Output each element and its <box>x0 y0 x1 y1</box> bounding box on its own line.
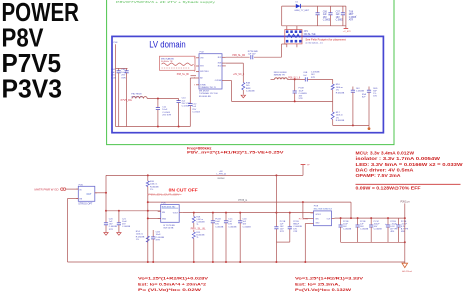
svg-text:X7R: X7R <box>109 229 114 231</box>
svg-text:1%: 1% <box>150 189 153 191</box>
svg-text:R.0603B: R.0603B <box>336 120 345 122</box>
wire U2 pin OVP down <box>222 80 232 82</box>
svg-text:P8V_EN_CUT_08V: P8V_EN_CUT_08V <box>148 194 180 197</box>
resistor R10 <box>147 175 149 181</box>
svg-text:OPAMP: 7.5V 2mA: OPAMP: 7.5V 2mA <box>356 173 401 178</box>
capacitor C32 <box>370 218 372 225</box>
wire mid rail <box>232 100 333 102</box>
op-amp U2 controller IC <box>199 54 222 89</box>
svg-text:LED: 3.3V 5mA = 0.0166W x2 =: LED: 3.3V 5mA = 0.0166W x2 = 0.033W <box>356 162 463 167</box>
svg-text:10uF: 10uF <box>162 109 168 111</box>
svg-text:8W8: 8W8 <box>246 88 251 90</box>
svg-text:1%: 1% <box>136 239 139 241</box>
svg-text:8: 8 <box>194 66 195 68</box>
capacitor C11 <box>157 99 159 108</box>
svg-text:16V: 16V <box>323 17 328 19</box>
blue LV domain box <box>112 36 383 132</box>
diode D1 <box>296 4 300 8</box>
svg-text:OD.SL.TLE: OD.SL.TLE <box>304 34 316 36</box>
wire P7V5 rail <box>147 98 178 100</box>
svg-text:+C_47V: +C_47V <box>343 31 352 33</box>
ground rail LV <box>116 126 191 128</box>
wire P3V3 down to ground <box>404 203 406 263</box>
wire U8 gnd <box>305 223 310 225</box>
svg-text:+8V: +8V <box>219 171 223 173</box>
svg-text:25V: 25V <box>111 75 115 77</box>
wire U6 en <box>148 217 161 219</box>
power flag +C_47V <box>345 26 347 29</box>
svg-text:B2DTV8.D: B2DTV8.D <box>200 71 209 73</box>
capacitor C23 <box>212 213 214 221</box>
svg-text:C.0603B: C.0603B <box>228 226 237 228</box>
power flag P8V <box>302 165 304 175</box>
svg-text:C1B: C1B <box>156 231 161 233</box>
svg-text:P8V_m=2*(1+R1/R2)*1.75-VE+0.25: P8V_m=2*(1+R1/R2)*1.75-VE+0.25V <box>187 151 285 155</box>
svg-text:X7R: X7R <box>311 77 316 79</box>
jumper JP1 footprint <box>286 26 288 30</box>
svg-text:25V: 25V <box>192 109 196 111</box>
capacitor C05 <box>126 68 128 70</box>
ground rail right <box>333 124 369 126</box>
svg-text:MHTR PWR W GD: MHTR PWR W GD <box>35 188 59 191</box>
svg-text:C.0603B: C.0603B <box>122 226 131 228</box>
svg-text:A TYPE: A TYPE <box>390 228 398 231</box>
capacitor CB (series) <box>250 55 252 59</box>
svg-text:GPIO1: GPIO1 <box>315 214 321 216</box>
svg-text:GND: GND <box>315 223 320 225</box>
wire cap lower rail <box>341 241 405 243</box>
svg-text:1uF: 1uF <box>336 14 341 16</box>
svg-text:8D.8000 8B: 8D.8000 8B <box>199 96 211 98</box>
svg-text:C.0603B: C.0603B <box>246 91 255 93</box>
svg-text:P=(VI-Vo)*Io= 0.132W: P=(VI-Vo)*Io= 0.132W <box>295 287 351 292</box>
svg-text:0N CUT OFF: 0N CUT OFF <box>169 187 198 192</box>
svg-text:0.09W = 0.128W@70% EFF: 0.09W = 0.128W@70% EFF <box>356 185 422 190</box>
svg-text:R.0603B: R.0603B <box>136 236 145 238</box>
capacitor C34 polarized <box>398 218 400 225</box>
capacitor C0C <box>352 87 354 91</box>
svg-text:10uF: 10uF <box>156 234 162 236</box>
svg-text:MKT: MKT <box>349 14 354 16</box>
capacitor C20 <box>105 222 107 224</box>
capacitor C26 <box>275 175 277 226</box>
capacitor C33 polarized <box>387 218 389 225</box>
svg-text:100k m: 100k m <box>136 234 143 236</box>
svg-text:C.0G: C.0G <box>111 77 116 79</box>
capacitor C07 <box>330 6 332 13</box>
svg-text:P08_SL_80: P08_SL_80 <box>177 74 190 76</box>
svg-text:FB2 HK08: FB2 HK08 <box>131 94 142 96</box>
svg-text:GND: GND <box>162 219 167 221</box>
capacitor C30 <box>340 218 342 225</box>
svg-text:T.8MBMV8, TM1, T8: T.8MBMV8, TM1, T8 <box>200 87 215 89</box>
svg-text:C.0G03: C.0G03 <box>192 112 200 114</box>
wire U5-U6 rail <box>106 210 161 212</box>
svg-text:MK3 KA8096: MK3 KA8096 <box>161 57 175 60</box>
svg-text:1uF: 1uF <box>323 14 328 16</box>
svg-text:C07: C07 <box>336 11 341 13</box>
wire input caps <box>116 67 128 69</box>
wire U5 out vertical <box>105 175 107 222</box>
svg-text:MCU: 3.3v 3.4mA 0.012W: MCU: 3.3v 3.4mA 0.012W <box>356 150 415 155</box>
ground <box>241 95 245 98</box>
svg-text:Est: Io= 0.5mA*4 + 20mA*2: Est: Io= 0.5mA*4 + 20mA*2 <box>138 281 207 286</box>
svg-text:DAC driver: 4V 0.5mA: DAC driver: 4V 0.5mA <box>356 168 414 173</box>
svg-text:OUT: OUT <box>87 194 92 196</box>
svg-text:16V: 16V <box>373 96 377 98</box>
svg-text:C.0603B: C.0603B <box>356 91 365 93</box>
node via <box>368 125 370 127</box>
svg-text:P3V3: P3V3 <box>2 76 63 104</box>
svg-text:1uF 10V: 1uF 10V <box>248 53 256 55</box>
svg-text:8: 8 <box>194 57 195 59</box>
wire U5 enable loop <box>68 198 79 200</box>
divider line <box>356 183 461 185</box>
svg-text:isolator : 3.3v 1.7mA 0.0054W: isolator : 3.3v 1.7mA 0.0054W <box>356 156 441 161</box>
svg-text:FB3 8 K0808: FB3 8 K0808 <box>274 72 288 74</box>
wire U6 to U8 rail P7V5 <box>182 212 313 214</box>
capacitor C0B (series) <box>304 77 306 81</box>
svg-text:100k m: 100k m <box>336 87 343 89</box>
svg-text:R.0603B: R.0603B <box>336 92 345 94</box>
svg-text:AG PGnd: AG PGnd <box>402 270 412 273</box>
svg-text:8: 8 <box>194 78 195 80</box>
svg-text:8: 8 <box>194 84 195 86</box>
resistor R18 divider top <box>193 213 195 217</box>
svg-text:L_P8V_A: L_P8V_A <box>217 173 227 176</box>
wire top feed drop <box>350 202 352 218</box>
wire port to U5 <box>66 188 78 190</box>
svg-text:10uF: 10uF <box>121 72 127 74</box>
svg-text:Est: Io= 25.3mA,: Est: Io= 25.3mA, <box>295 281 340 286</box>
wire bottom ground rail <box>68 261 405 263</box>
svg-text:8MK0M TR: 8MK0M TR <box>274 75 285 77</box>
svg-text:C.0805: C.0805 <box>323 20 331 22</box>
svg-text:C.0603B: C.0603B <box>156 237 165 239</box>
svg-text:P8V: P8V <box>2 24 44 52</box>
wire cap bracket <box>276 241 289 243</box>
capacitor C31 <box>357 218 359 225</box>
svg-text:POWER: POWER <box>2 0 80 27</box>
svg-text:1%: 1% <box>336 90 339 92</box>
svg-text:X7R: X7R <box>280 231 285 233</box>
wire U8 en vertical <box>302 202 304 218</box>
svg-text:A8: A8 <box>200 77 202 80</box>
wire P8V rail <box>106 174 303 176</box>
resistor R19 divider bottom <box>193 230 195 232</box>
svg-text:P7V5_RG: P7V5_RG <box>121 99 132 102</box>
svg-text:MIC 2TD8 SLTB2 KL8: MIC 2TD8 SLTB2 KL8 <box>314 208 333 210</box>
svg-text:100k m: 100k m <box>150 184 157 186</box>
svg-text:P8V/P7V5/P3V3 + 2F 2TV + flyba: P8V/P7V5/P3V3 + 2F 2TV + flyback supply <box>116 0 216 4</box>
svg-text:C.0603B: C.0603B <box>374 229 383 231</box>
svg-text:on the bottom - 1.5: on the bottom - 1.5 <box>305 42 323 45</box>
capacitor C06 <box>317 6 319 13</box>
capacitor C24 <box>225 213 227 221</box>
svg-text:VBRMK: VBRMK <box>217 178 225 180</box>
capacitor C27 <box>289 213 291 227</box>
resistor R1B <box>242 63 244 82</box>
svg-text:R1A: R1A <box>362 93 367 96</box>
capacitor C12 <box>190 77 196 79</box>
capacitor C22 <box>152 230 154 237</box>
svg-text:C.0G03: C.0G03 <box>162 112 170 114</box>
svg-text:X7R: X7R <box>293 231 298 233</box>
svg-text:See Felix Footprint for placem: See Felix Footprint for placement <box>305 38 346 42</box>
capacitor C0D <box>368 87 370 91</box>
svg-text:C0B: C0B <box>303 72 308 74</box>
svg-text:Vo=1.25*(1+R2/R1)=3.33V: Vo=1.25*(1+R2/R1)=3.33V <box>295 275 363 280</box>
svg-text:B T.DT8.8B: B T.DT8.8B <box>164 225 176 227</box>
svg-text:STROG OPT: STROG OPT <box>78 202 93 205</box>
wire U2 pin2 <box>226 62 244 64</box>
svg-text:TU8: TU8 <box>349 11 354 13</box>
svg-text:P3V3_m: P3V3_m <box>401 201 410 204</box>
svg-text:8 HMD: 8 HMD <box>200 84 206 86</box>
wire U5 out <box>95 192 106 194</box>
capacitor C08 <box>294 78 296 80</box>
svg-text:1uF: 1uF <box>111 72 115 74</box>
capacitor C0A <box>342 6 344 13</box>
svg-text:1%: 1% <box>336 117 339 119</box>
svg-text:GRM_TY_MKT: GRM_TY_MKT <box>294 10 310 12</box>
regulator U8 <box>314 211 332 226</box>
svg-text:25V X7R: 25V X7R <box>162 115 171 117</box>
svg-text:16V: 16V <box>336 17 341 19</box>
wire top loop <box>282 5 346 7</box>
svg-text:R1B: R1B <box>246 82 251 84</box>
svg-text:25V: 25V <box>121 75 125 77</box>
regulator U6 <box>161 205 180 223</box>
resistor R17 <box>332 101 334 112</box>
svg-text:TGTA 8AL 12V 100: TGTA 8AL 12V 100 <box>199 92 219 95</box>
svg-text:100k m: 100k m <box>336 115 343 117</box>
svg-text:C.0603B: C.0603B <box>243 226 252 228</box>
green schematic border <box>107 0 394 145</box>
capacitor C10 <box>178 99 180 101</box>
regulator U5 <box>78 186 95 201</box>
svg-text:VOUT: VOUT <box>173 212 179 214</box>
svg-text:LV domain: LV domain <box>149 39 186 49</box>
svg-text:P8V_SL_8L: P8V_SL_8L <box>191 227 207 230</box>
ground P3V3 <box>402 263 408 267</box>
wire P3V3 output rail <box>335 217 405 219</box>
svg-text:C06: C06 <box>323 11 328 13</box>
svg-text:X5R: X5R <box>121 77 126 79</box>
svg-text:C.0603B: C.0603B <box>215 226 224 228</box>
svg-text:8DT10 8B: 8DT10 8B <box>164 228 174 230</box>
capacitor C04 <box>118 68 120 70</box>
svg-text:R.0603B: R.0603B <box>150 186 159 188</box>
svg-text:8: 8 <box>194 71 195 73</box>
svg-text:X7R: X7R <box>156 240 161 242</box>
svg-text:X7R: X7R <box>299 98 304 100</box>
capacitor C25 <box>239 213 241 221</box>
svg-text:OVP&M: OVP&M <box>215 80 222 82</box>
resistor R16 <box>332 79 334 84</box>
svg-text:1uF: 1uF <box>192 106 196 108</box>
svg-text:ATR: ATR <box>349 19 354 22</box>
capacitor C21 <box>118 211 120 223</box>
svg-text:P7V5: P7V5 <box>2 50 62 78</box>
svg-text:P7V5_m: P7V5_m <box>238 200 247 202</box>
svg-text:JP1: JP1 <box>304 31 309 33</box>
svg-text:Vo=1.25*(1+R2/R1)+0.028V: Vo=1.25*(1+R2/R1)+0.028V <box>138 275 208 280</box>
svg-text:C.0603B: C.0603B <box>343 229 352 231</box>
oscillator module MK3 <box>160 56 196 70</box>
svg-text:C.0603B: C.0603B <box>360 229 369 231</box>
wire P7V5 top feed <box>148 201 351 203</box>
svg-text:P= (VI-Vo)*Io= 0.02W: P= (VI-Vo)*Io= 0.02W <box>138 287 201 292</box>
